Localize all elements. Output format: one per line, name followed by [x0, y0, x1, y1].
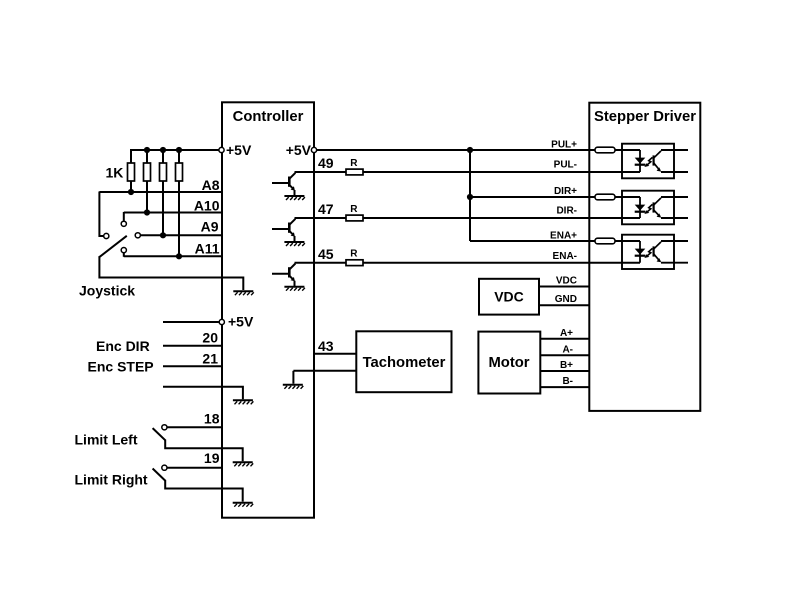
wire +5V to PUL+ — [317, 149, 640, 151]
pin circle limit left contact — [162, 425, 167, 430]
junction rail dot R4 — [176, 147, 182, 153]
svg-text:1K: 1K — [106, 165, 124, 181]
wire opto OC1 emitter output — [661, 171, 688, 173]
wire resistor R1 top lead — [130, 149, 132, 163]
wire A11 — [124, 255, 221, 257]
wire +5V rail top-left — [131, 149, 219, 151]
svg-text:R: R — [350, 204, 358, 215]
wire limit left to ground — [165, 440, 243, 462]
junction rail dot R2 — [144, 147, 150, 153]
svg-text:Stepper Driver: Stepper Driver — [594, 109, 696, 125]
wire +5V distribution vertical — [469, 150, 471, 241]
wire opto OC3 emitter output — [661, 262, 688, 264]
optocoupler OC1 — [622, 144, 674, 179]
junction DIR+ tap — [467, 194, 473, 200]
resistor R49 — [346, 169, 363, 175]
wire A10 to joystick top contact — [123, 212, 125, 221]
svg-text:R: R — [350, 158, 358, 169]
pin circle controller +5V enc — [219, 319, 224, 324]
wire motor A+ — [540, 338, 589, 340]
wire opto OC2 collector output — [661, 196, 688, 198]
wire pin 20 Enc DIR — [163, 345, 221, 347]
pin circle limit right contact — [162, 465, 167, 470]
wire joystick common — [99, 257, 243, 290]
svg-text:Motor: Motor — [488, 355, 529, 371]
ground of Q3 — [284, 287, 305, 291]
ground of Q1 — [284, 196, 305, 200]
svg-text:43: 43 — [318, 338, 334, 354]
resistor PUL+ input — [595, 147, 615, 153]
wire resistor R3 bottom lead — [162, 181, 164, 235]
resistor R45 — [346, 260, 363, 266]
wire motor B- — [540, 386, 589, 388]
junction A10-R2 — [144, 209, 150, 215]
svg-text:Joystick: Joystick — [79, 283, 135, 299]
wire resistor R2 bottom lead — [146, 181, 148, 213]
wire resistor R4 top lead — [178, 149, 180, 163]
switch limit right — [153, 469, 166, 481]
wire A9 — [141, 234, 222, 236]
wire opto OC1 collector output — [661, 149, 688, 151]
svg-text:VDC: VDC — [556, 275, 577, 286]
svg-text:18: 18 — [204, 410, 220, 426]
junction A8-R1 — [128, 189, 134, 195]
svg-text:A10: A10 — [194, 198, 220, 214]
junction A11-R4 — [176, 253, 182, 259]
svg-text:45: 45 — [318, 246, 334, 262]
resistor R47 — [346, 215, 363, 221]
wire pin 43 tachometer — [315, 353, 356, 355]
svg-text:20: 20 — [202, 330, 218, 346]
wire encoder ground return — [163, 387, 243, 399]
svg-text:Controller: Controller — [233, 109, 304, 125]
svg-text:GND: GND — [555, 294, 577, 305]
wire pin45 to ENA- — [295, 262, 641, 264]
svg-text:19: 19 — [204, 450, 220, 466]
transistor Q2 — [272, 219, 295, 242]
wire resistor R4 bottom lead — [178, 181, 180, 256]
pin circle controller +5V left — [219, 147, 224, 152]
wire +5V encoder — [163, 321, 219, 323]
svg-text:PUL-: PUL- — [554, 160, 577, 171]
resistor DIR+ input — [595, 194, 615, 200]
wire pin 18 limit left — [167, 426, 221, 428]
VDC supply box — [479, 279, 539, 315]
ground tachometer — [283, 385, 304, 389]
svg-text:A11: A11 — [195, 241, 220, 257]
resistor R2 1K pull-up — [144, 163, 151, 181]
wire limit right to ground — [165, 480, 243, 502]
ground joystick — [233, 291, 254, 295]
pin circle joystick right contact — [135, 233, 140, 238]
wire A8 to joystick left contact — [99, 192, 103, 237]
svg-text:VDC: VDC — [494, 289, 524, 305]
motor box M1 — [478, 332, 540, 394]
resistor ENA+ input — [595, 238, 615, 244]
wire tachometer return — [293, 370, 356, 372]
ground limit right — [233, 503, 254, 507]
svg-text:49: 49 — [318, 155, 334, 171]
svg-text:Enc STEP: Enc STEP — [88, 358, 154, 374]
svg-text:PUL+: PUL+ — [551, 140, 577, 151]
svg-text:+5V: +5V — [226, 142, 252, 158]
svg-text:DIR+: DIR+ — [554, 186, 577, 197]
ground encoder — [233, 400, 254, 404]
svg-text:47: 47 — [318, 201, 334, 217]
svg-text:A-: A- — [562, 344, 573, 355]
wire resistor R3 top lead — [162, 149, 164, 163]
optocoupler OC3 — [622, 235, 674, 269]
resistor R1 1K pull-up — [128, 163, 135, 181]
svg-text:B-: B- — [562, 376, 573, 387]
svg-text:B+: B+ — [560, 360, 573, 371]
transistor Q1 — [272, 173, 295, 196]
wire VDC supply - — [539, 304, 589, 306]
resistor R3 1K pull-up — [160, 163, 167, 181]
pin circle joystick left contact — [104, 233, 109, 238]
wire motor A- — [540, 354, 589, 356]
wire pin 21 Enc STEP — [163, 365, 221, 367]
junction PUL+/vertical — [467, 147, 473, 153]
wire resistor R2 top lead — [146, 149, 148, 163]
ground of Q2 — [284, 242, 305, 246]
svg-text:A+: A+ — [560, 328, 573, 339]
svg-text:ENA-: ENA- — [553, 251, 577, 262]
wire tachometer ground drop — [292, 371, 294, 384]
ground limit left — [233, 462, 254, 466]
svg-text:+5V: +5V — [228, 314, 254, 330]
pin circle joystick bottom contact — [121, 248, 126, 253]
wire opto OC3 collector output — [661, 240, 688, 242]
wire pin 19 limit right — [167, 467, 221, 469]
junction rail dot R3 — [160, 147, 166, 153]
resistor R4 1K pull-up — [176, 163, 183, 181]
pin circle controller +5V right — [311, 147, 316, 152]
svg-text:21: 21 — [202, 351, 218, 367]
wire DIR+ — [470, 196, 640, 198]
wire joystick lever — [99, 236, 127, 258]
wire VDC supply + — [539, 286, 589, 288]
svg-text:Tachometer: Tachometer — [363, 355, 446, 371]
tachometer box — [356, 331, 451, 392]
wire A10 — [124, 212, 221, 214]
stepper driver box U2 — [589, 103, 700, 411]
svg-text:+5V: +5V — [286, 142, 312, 158]
svg-text:R: R — [350, 249, 358, 260]
pin circle joystick top contact — [121, 221, 126, 226]
wire joystick bottom contact to A11 — [123, 253, 125, 257]
transistor Q3 — [272, 264, 295, 287]
optocoupler OC2 — [622, 191, 674, 225]
svg-text:Enc DIR: Enc DIR — [96, 338, 150, 354]
wire opto OC2 emitter output — [661, 217, 688, 219]
svg-text:A9: A9 — [201, 219, 219, 235]
wire resistor R1 bottom lead — [130, 181, 132, 192]
wire A8 — [99, 191, 221, 193]
svg-text:ENA+: ENA+ — [550, 231, 577, 242]
wire motor B+ — [540, 370, 589, 372]
wire pin49 to PUL- — [295, 171, 641, 173]
wire pin47 to DIR- — [295, 217, 641, 219]
wire ENA+ — [470, 240, 640, 242]
svg-text:Limit Left: Limit Left — [75, 431, 138, 447]
junction A9-R3 — [160, 232, 166, 238]
svg-text:DIR-: DIR- — [556, 206, 577, 217]
svg-text:A8: A8 — [202, 177, 220, 193]
controller box U1 — [222, 102, 314, 517]
switch limit left — [153, 428, 166, 440]
svg-text:Limit Right: Limit Right — [75, 472, 148, 488]
